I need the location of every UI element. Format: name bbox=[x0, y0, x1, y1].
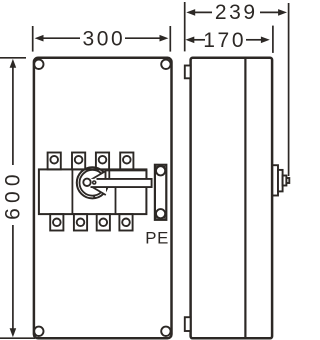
switch body bbox=[39, 169, 146, 214]
handle pivot eye bbox=[83, 179, 90, 186]
mounting hole top-right bbox=[161, 60, 170, 69]
switch pole divider right bbox=[115, 187, 117, 214]
dim 170 arrow right bbox=[261, 37, 270, 44]
svg-text:PE: PE bbox=[145, 229, 169, 248]
top terminal 4 bbox=[120, 153, 133, 170]
PE corner wedges bbox=[156, 166, 165, 219]
svg-text:239: 239 bbox=[215, 1, 258, 24]
dim 239 left extension line bbox=[184, 2, 186, 51]
PE bottom terminal circle bbox=[156, 209, 165, 218]
handle position tick bbox=[93, 195, 96, 199]
switch pole divider left bbox=[71, 169, 73, 214]
top terminal 1 bbox=[48, 153, 61, 170]
dim 170 line right segment bbox=[246, 39, 262, 41]
dim 170 right tick bbox=[272, 26, 274, 53]
handle shaft step 2 bbox=[278, 170, 283, 192]
handle rosette inner circle bbox=[80, 170, 106, 196]
handle shaft step 3 bbox=[283, 176, 287, 186]
enclosure front view outline bbox=[34, 58, 172, 339]
dim 600 arrow up bbox=[10, 59, 17, 68]
mounting hole top-left bbox=[34, 60, 43, 69]
dim 600 line lower segment bbox=[12, 225, 14, 332]
PE top terminal circle bbox=[156, 166, 165, 175]
dim 300 arrow right bbox=[160, 35, 169, 42]
handle grip taper upper bbox=[89, 171, 106, 181]
handle lever bar bbox=[86, 179, 152, 187]
handle rosette outer circle bbox=[77, 167, 108, 198]
handle grip taper lower bbox=[89, 185, 106, 195]
dim 239 line left segment bbox=[192, 11, 212, 13]
dim 600 arrow down bbox=[10, 328, 17, 337]
dim 170 arrow left bbox=[185, 37, 194, 44]
bottom terminal 1 bbox=[50, 214, 63, 230]
dim 170 line left segment bbox=[192, 39, 205, 41]
svg-text:170: 170 bbox=[203, 29, 246, 52]
dim 239 line right segment bbox=[260, 11, 280, 13]
side view cover split line bbox=[244, 58, 246, 339]
bottom terminal 4 bbox=[119, 214, 132, 230]
dim 239 arrow right bbox=[278, 9, 287, 16]
PE terminal bar bbox=[155, 165, 166, 220]
handle plate inner edge bbox=[108, 170, 110, 179]
handle plate bbox=[106, 170, 147, 179]
handle shaft step 1 bbox=[272, 165, 278, 195]
dim 600 top extension line bbox=[0, 57, 26, 59]
dim 300 line left segment bbox=[40, 37, 80, 39]
svg-text:300: 300 bbox=[82, 28, 125, 51]
handle shaft tip nub bbox=[286, 178, 289, 183]
top terminal 2 bbox=[72, 153, 85, 170]
dim 600 line upper segment bbox=[12, 64, 14, 165]
enclosure side view outline bbox=[191, 58, 273, 339]
dim 300 arrow left bbox=[35, 35, 44, 42]
side view bottom hinge tab bbox=[185, 317, 191, 331]
handle lock dot bbox=[92, 180, 97, 185]
bottom terminal 3 bbox=[97, 214, 110, 230]
dim 239 arrow left bbox=[186, 9, 195, 16]
bottom terminal 2 bbox=[74, 214, 87, 230]
dim 239 right extension line bbox=[288, 3, 290, 176]
dim 300 left tick bbox=[32, 26, 34, 52]
mounting hole bottom-left bbox=[34, 327, 43, 336]
mounting hole bottom-right bbox=[161, 327, 170, 336]
dim 300 right tick bbox=[169, 26, 171, 52]
top terminal 3 bbox=[96, 153, 109, 170]
svg-text:600: 600 bbox=[2, 169, 25, 220]
dim 300 line right segment bbox=[125, 37, 163, 39]
dim 600 bottom extension line bbox=[0, 337, 35, 339]
side view top hinge tab bbox=[185, 66, 191, 79]
